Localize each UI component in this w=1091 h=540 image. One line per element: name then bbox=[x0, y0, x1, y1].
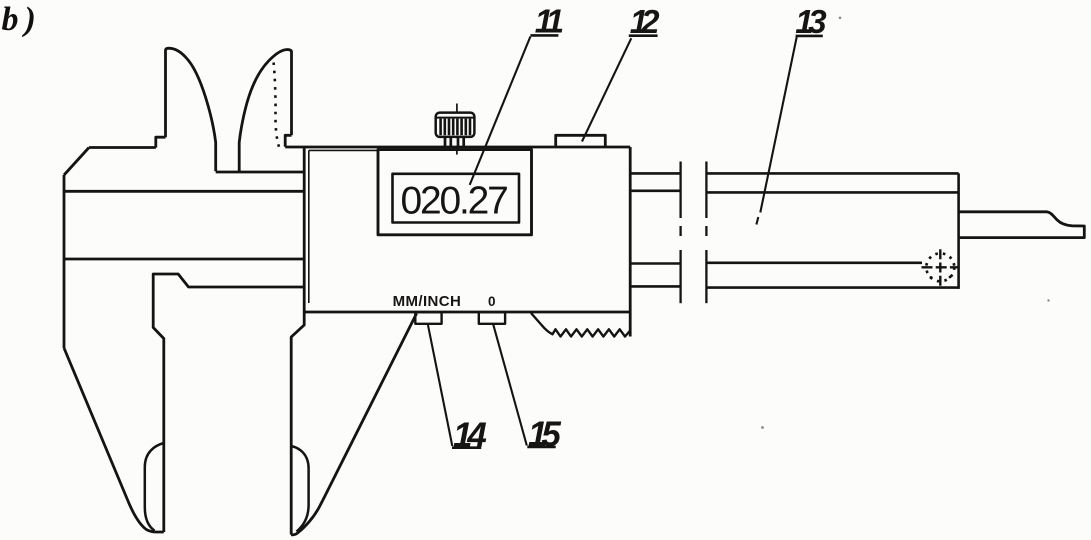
svg-text:14: 14 bbox=[453, 416, 487, 455]
svg-text:b): b) bbox=[2, 1, 42, 38]
svg-text:MM/INCH: MM/INCH bbox=[393, 293, 462, 310]
svg-text:020.27: 020.27 bbox=[401, 180, 508, 223]
svg-text:0: 0 bbox=[488, 294, 496, 309]
svg-text:11: 11 bbox=[535, 2, 564, 39]
